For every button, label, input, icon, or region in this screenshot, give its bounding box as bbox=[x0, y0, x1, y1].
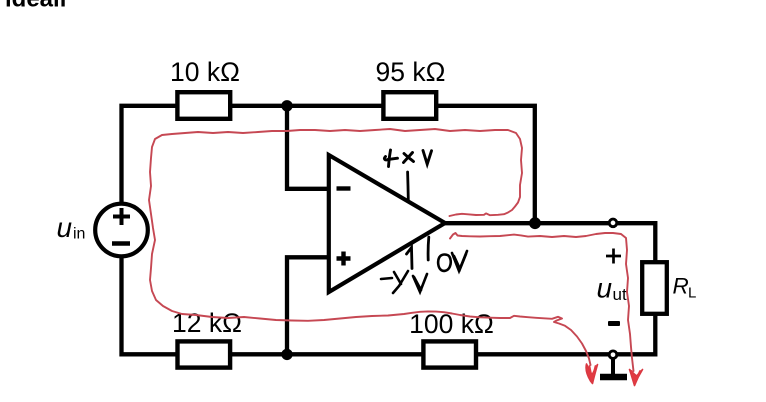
load resistor RL box bbox=[642, 262, 667, 314]
wire from R1 to R2 through node A bbox=[231, 104, 384, 108]
svg-text:ideali: ideali bbox=[5, 0, 66, 13]
red arrowhead (left, at ground) bbox=[586, 364, 597, 384]
svg-text:12 kΩ: 12 kΩ bbox=[172, 308, 242, 338]
svg-text:u: u bbox=[57, 212, 73, 243]
red annotation: output trace with arrow bbox=[450, 233, 634, 371]
bottom terminal (open circle) bbox=[609, 351, 617, 359]
label RL bbox=[673, 274, 697, 302]
value label 100 kOhm bbox=[409, 309, 494, 339]
wire from source top to R1 bbox=[122, 106, 178, 204]
handwritten bottom supply pin strokes bbox=[407, 237, 429, 269]
output terminal (open circle, top) bbox=[609, 219, 617, 227]
resistor R1 box bbox=[177, 92, 230, 119]
wire from node A to inverting input bbox=[287, 106, 328, 189]
voltage source u_in bbox=[95, 204, 148, 257]
svg-text:in: in bbox=[73, 226, 85, 243]
label + of u_ut bbox=[606, 249, 621, 264]
svg-text:R: R bbox=[673, 274, 689, 299]
svg-text:ut: ut bbox=[613, 285, 627, 304]
handwritten +xV supply label bbox=[384, 150, 431, 167]
wire bottom rail from terminal to R4 bbox=[478, 352, 615, 356]
value label 12 kOhm bbox=[172, 308, 242, 338]
wire from R2 to output node B bbox=[438, 106, 535, 221]
label - of u_ut bbox=[608, 321, 620, 326]
ground bbox=[600, 358, 627, 377]
svg-text:95 kΩ: 95 kΩ bbox=[376, 57, 446, 87]
svg-text:10 kΩ: 10 kΩ bbox=[170, 57, 240, 87]
op-amp top supply pin stub bbox=[406, 172, 409, 200]
value label 10 kOhm bbox=[170, 57, 240, 87]
wire RL bottom to bottom rail bbox=[611, 314, 655, 354]
wire R3 to source bottom bbox=[122, 256, 179, 354]
red arrowhead (right, at ground) bbox=[630, 370, 643, 386]
node B junction dot bbox=[529, 217, 541, 229]
handwritten -yV label bbox=[381, 271, 427, 293]
op-amp U1 bbox=[329, 155, 445, 292]
wire node C to non-inverting input bbox=[287, 257, 328, 354]
resistor R3 box bbox=[178, 341, 231, 367]
handwritten 0V label bbox=[438, 251, 467, 271]
node A junction dot bbox=[281, 100, 292, 111]
wire op-amp output to load corner bbox=[444, 223, 655, 262]
label u_ut bbox=[597, 273, 627, 305]
node C junction dot bbox=[281, 349, 292, 360]
label u_in bbox=[57, 212, 86, 243]
red annotation: feedback loop trace with arrow bbox=[149, 129, 591, 365]
svg-text:u: u bbox=[597, 273, 613, 304]
cropped title text "ideal:" bbox=[5, 0, 66, 13]
resistor R4 box bbox=[423, 341, 476, 367]
wire R4 to R3 through node C bbox=[231, 352, 424, 356]
value label 95 kOhm bbox=[376, 57, 446, 87]
svg-text:L: L bbox=[688, 285, 696, 302]
resistor R2 box bbox=[383, 92, 436, 119]
